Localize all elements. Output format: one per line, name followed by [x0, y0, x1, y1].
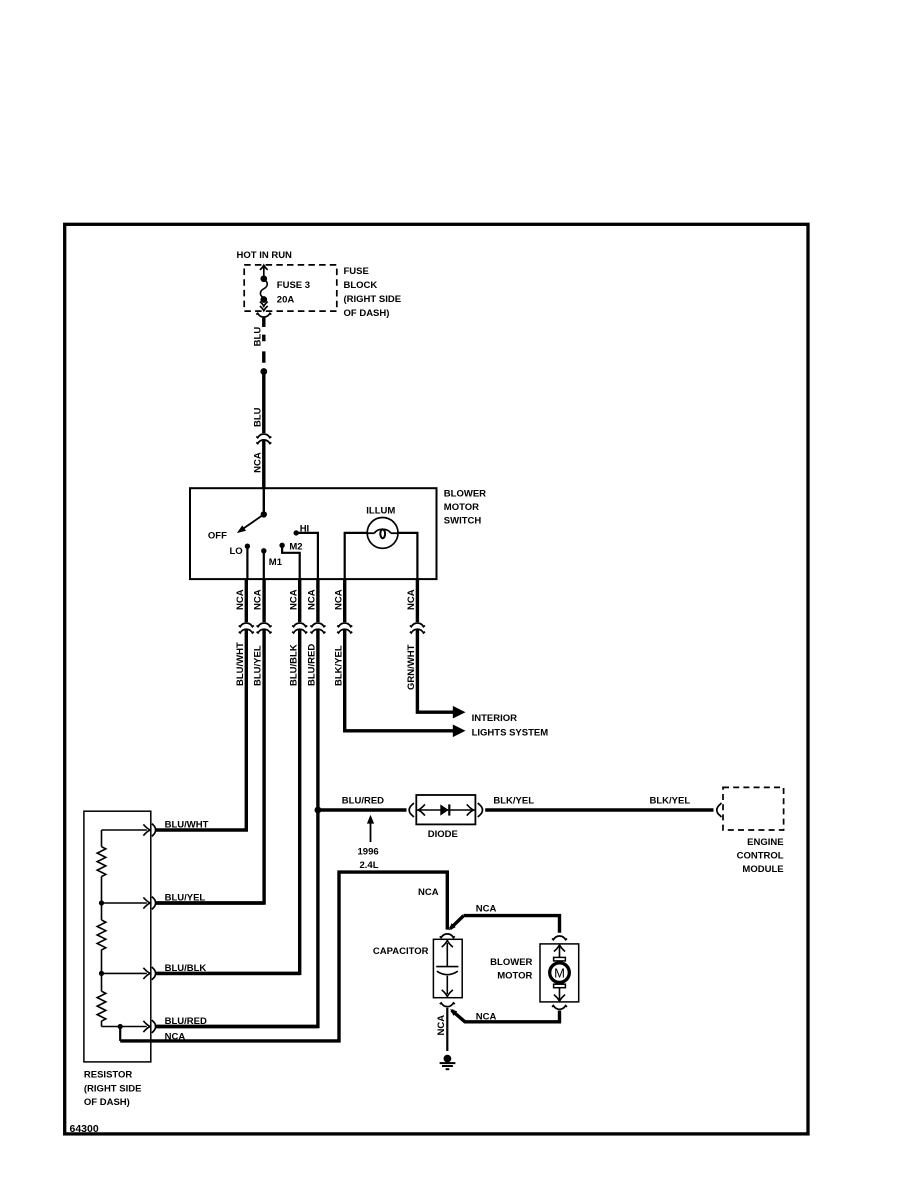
svg-text:BLU/RED: BLU/RED [165, 1016, 207, 1027]
wire BLU/RED row [156, 1025, 318, 1028]
svg-text:BLU/YEL: BLU/YEL [253, 645, 264, 686]
svg-text:RESISTOR: RESISTOR [84, 1070, 133, 1081]
label NCA [165, 1031, 186, 1042]
label BLU [253, 327, 264, 347]
blower motor label [490, 957, 532, 982]
svg-text:NCA: NCA [476, 1011, 497, 1022]
wire BLU/BLK [157, 579, 300, 973]
label BLU/BLK [165, 963, 207, 974]
label 1996 2.4L [358, 846, 379, 871]
resistor element R1 [97, 847, 106, 877]
svg-text:1996: 1996 [358, 846, 379, 857]
border frame [65, 224, 808, 1134]
connector [310, 623, 325, 633]
capacitor box [433, 939, 462, 997]
svg-text:BLU/RED: BLU/RED [307, 644, 318, 686]
wire BLU/RED [157, 579, 318, 1026]
label NCA vertical [436, 1015, 447, 1036]
svg-text:CAPACITOR: CAPACITOR [373, 946, 429, 957]
svg-text:DIODE: DIODE [428, 829, 458, 840]
wire BLK/YEL to ECM [485, 808, 713, 811]
connector [292, 623, 307, 633]
svg-text:HOT IN RUN: HOT IN RUN [237, 250, 293, 261]
fuse value label [277, 280, 310, 305]
node INTERIOR LIGHTS SYSTEM [472, 713, 549, 738]
motor M letter [554, 966, 565, 981]
svg-text:BLU: BLU [253, 407, 264, 427]
fuse block box (dashed) [244, 265, 337, 311]
blower motor box [540, 944, 579, 1002]
connector motor top [552, 936, 567, 940]
tap dot BLU/BLK [99, 971, 104, 976]
connector motor bottom [552, 1006, 567, 1010]
svg-text:BLU/RED: BLU/RED [342, 795, 384, 806]
svg-text:BLU/WHT: BLU/WHT [165, 819, 209, 830]
svg-text:NCA: NCA [418, 887, 439, 898]
svg-text:M: M [554, 966, 565, 981]
connector [410, 623, 425, 633]
svg-text:MODULE: MODULE [742, 864, 783, 875]
in-line connector C100 [256, 434, 271, 444]
svg-text:NCA: NCA [235, 589, 246, 610]
label NCA [235, 589, 246, 610]
diode box [416, 795, 475, 824]
connector ECM [717, 803, 722, 817]
label OFF [208, 531, 227, 542]
arrow to interior lights (BLK/YEL) [453, 725, 466, 738]
wire NCA motor top [447, 916, 560, 933]
label NCA [476, 1011, 497, 1022]
engine control module box (dashed) [723, 787, 784, 830]
svg-text:BLOCK: BLOCK [344, 280, 378, 291]
svg-text:NCA: NCA [476, 903, 497, 914]
wire capacitor to ground [446, 1008, 448, 1051]
fuse block label [344, 266, 402, 319]
wire BLU solid to connector [262, 374, 265, 433]
svg-text:BLU/BLK: BLU/BLK [165, 963, 207, 974]
svg-text:BLOWER: BLOWER [444, 489, 486, 500]
label NCA [307, 589, 318, 610]
resistor label [84, 1070, 142, 1108]
terminal BLU/RED [143, 1020, 155, 1033]
label BLU/RED [307, 644, 318, 686]
wire BLU/RED to diode [318, 808, 407, 811]
junction dot BLU/RED [315, 807, 322, 814]
resistor box [84, 811, 151, 1062]
svg-text:BLU/YEL: BLU/YEL [165, 892, 206, 903]
svg-text:BLK/YEL: BLK/YEL [333, 645, 344, 686]
connector diode right [478, 803, 483, 817]
svg-text:NCA: NCA [165, 1031, 186, 1042]
label BLU [253, 407, 264, 427]
wire NCA run to capacitor [120, 872, 447, 1041]
svg-text:NCA: NCA [406, 589, 417, 610]
ground G100 [440, 1055, 456, 1070]
switch wiper arm [235, 511, 267, 536]
diode element [416, 804, 475, 815]
capacitor C1 [436, 941, 458, 997]
contact M2 [279, 543, 284, 548]
tap dot BLU/YEL [99, 900, 104, 905]
label BLK/YEL [333, 645, 344, 686]
contact HI [294, 530, 299, 535]
svg-text:20A: 20A [277, 294, 295, 305]
svg-text:MOTOR: MOTOR [497, 970, 532, 981]
label BLU/BLK [288, 644, 299, 686]
wire lamp right to GRN/WHT [398, 533, 417, 579]
contact M1 [261, 548, 266, 553]
svg-text:INTERIOR: INTERIOR [472, 713, 518, 724]
label NCA [253, 452, 264, 473]
svg-text:GRN/WHT: GRN/WHT [406, 644, 417, 690]
svg-text:OF DASH): OF DASH) [84, 1097, 130, 1108]
svg-text:OF DASH): OF DASH) [344, 308, 390, 319]
svg-text:64300: 64300 [70, 1123, 99, 1135]
svg-text:BLK/YEL: BLK/YEL [493, 795, 534, 806]
blower motor switch box [190, 488, 437, 579]
wire lamp left to BLK/YEL [345, 533, 368, 579]
svg-text:BLU/WHT: BLU/WHT [235, 642, 246, 686]
resistor internal wire [102, 830, 147, 1027]
label BLK/YEL [493, 795, 534, 806]
connector [337, 623, 352, 633]
wire BLU/YEL [157, 579, 265, 903]
resistor element R3 [97, 991, 106, 1021]
engine control module label [737, 837, 784, 875]
wire M1 to BLU/YEL [263, 551, 265, 579]
svg-text:M2: M2 [289, 542, 302, 553]
label NCA [333, 589, 344, 610]
connector capacitor bottom [440, 1003, 455, 1007]
svg-text:MOTOR: MOTOR [444, 502, 479, 513]
svg-text:2.4L: 2.4L [360, 860, 379, 871]
label BLU/YEL [165, 892, 206, 903]
wire BLU/BLK row [156, 972, 300, 975]
wire NCA motor bottom to capacitor [448, 1007, 559, 1022]
svg-text:(RIGHT SIDE: (RIGHT SIDE [84, 1083, 142, 1094]
label BLU/WHT [165, 819, 209, 830]
arrow to interior lights (GRN/WHT) [453, 706, 466, 719]
junction dot NCA takeoff [118, 1024, 123, 1029]
label BLU/RED [165, 1016, 207, 1027]
wire GRN/WHT to interior lights [417, 579, 453, 712]
svg-text:SWITCH: SWITCH [444, 516, 482, 527]
node HOT IN RUN [237, 250, 293, 261]
connector [239, 623, 254, 633]
label BLK/YEL [650, 795, 691, 806]
svg-text:FUSE: FUSE [344, 266, 369, 277]
callout arrow 1996 2.4L [367, 815, 374, 842]
wire HI to BLU/RED [296, 533, 318, 579]
svg-text:NCA: NCA [333, 589, 344, 610]
label BLU/RED [342, 795, 384, 806]
label NCA [253, 589, 264, 610]
svg-text:LIGHTS SYSTEM: LIGHTS SYSTEM [472, 727, 549, 738]
svg-text:FUSE 3: FUSE 3 [277, 280, 310, 291]
label GRN/WHT [406, 644, 417, 690]
doc number 64300 [70, 1123, 99, 1135]
label BLU/YEL [253, 645, 264, 686]
wire BLU/WHT [156, 579, 247, 830]
label BLU/WHT [235, 642, 246, 686]
svg-text:BLK/YEL: BLK/YEL [650, 795, 691, 806]
wire BLU dashed from fuse [262, 318, 265, 363]
svg-text:M1: M1 [269, 557, 283, 568]
wire NCA from resistor [119, 1027, 121, 1041]
svg-text:BLU/BLK: BLU/BLK [288, 644, 299, 686]
connector [257, 623, 272, 633]
svg-text:LO: LO [230, 546, 243, 557]
wire into wiper [263, 489, 265, 514]
capacitor label [373, 946, 429, 957]
connector below fuse block [256, 313, 271, 317]
svg-text:ENGINE: ENGINE [747, 837, 783, 848]
blower motor M1 [550, 945, 570, 1001]
label NCA [406, 589, 417, 610]
connector capacitor top [440, 934, 455, 938]
wire NCA into switch [262, 440, 265, 489]
fuse FUSE 3 20A [260, 265, 268, 310]
svg-text:BLOWER: BLOWER [490, 957, 532, 968]
label NCA [288, 589, 299, 610]
svg-text:NCA: NCA [307, 589, 318, 610]
resistor element R2 [97, 920, 106, 950]
svg-text:(RIGHT SIDE: (RIGHT SIDE [344, 294, 402, 305]
terminal BLU/YEL [143, 897, 155, 910]
diode label [428, 829, 458, 840]
label NCA at capacitor feed [418, 887, 439, 898]
contact LO [245, 544, 250, 549]
wire LO to BLU/WHT [246, 546, 248, 579]
label NCA [476, 903, 497, 914]
svg-text:BLU: BLU [253, 327, 264, 347]
svg-text:CONTROL: CONTROL [737, 850, 784, 861]
svg-text:NCA: NCA [253, 452, 264, 473]
wire BLU/YEL row [156, 901, 264, 904]
wire M2 to BLU/BLK [282, 545, 300, 579]
terminal BLU/BLK [143, 967, 155, 980]
blower motor switch label [444, 489, 486, 527]
svg-text:NCA: NCA [253, 589, 264, 610]
terminal BLU/WHT [143, 824, 155, 837]
svg-text:NCA: NCA [436, 1015, 447, 1036]
illumination lamp ILLUM [367, 518, 398, 549]
svg-text:NCA: NCA [288, 589, 299, 610]
junction dot [260, 368, 267, 375]
svg-text:ILLUM: ILLUM [366, 505, 395, 516]
wire BLK/YEL to interior lights [345, 579, 454, 731]
svg-text:OFF: OFF [208, 531, 227, 542]
connector diode left [409, 803, 414, 817]
